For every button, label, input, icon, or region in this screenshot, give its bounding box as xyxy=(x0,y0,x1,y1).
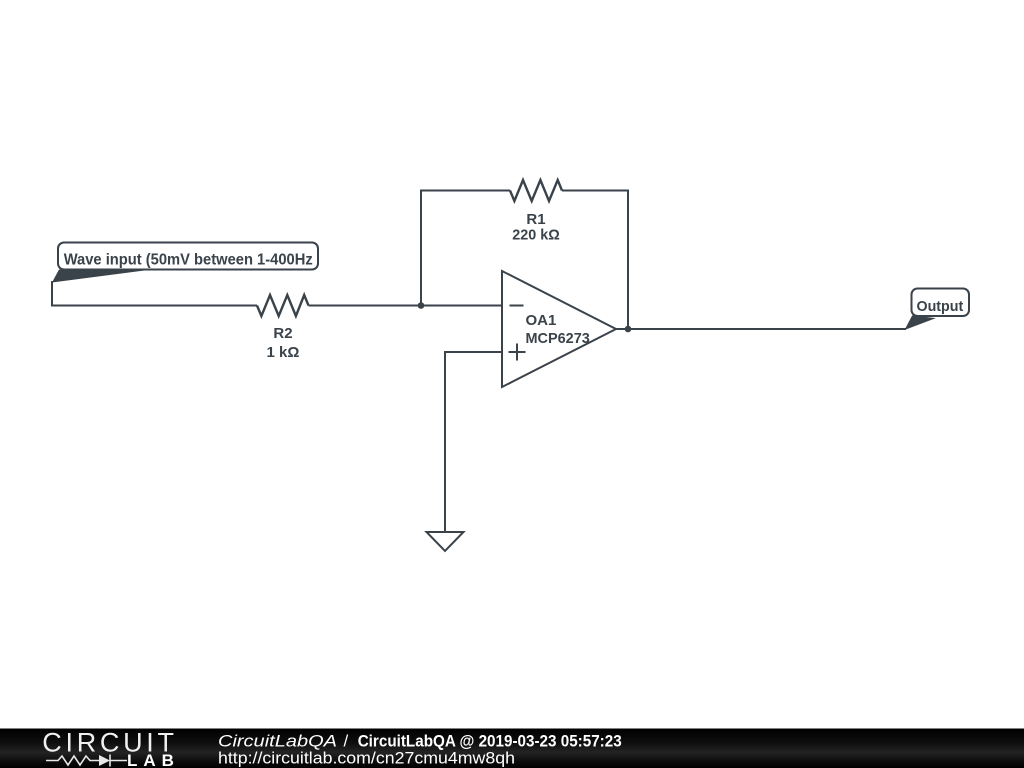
op-amp OA1 xyxy=(502,271,616,387)
svg-text:1 kΩ: 1 kΩ xyxy=(267,344,300,361)
wire: feedback vertical left xyxy=(420,191,422,307)
svg-text:MCP6273: MCP6273 xyxy=(526,330,590,347)
svg-text:R2: R2 xyxy=(273,325,292,342)
svg-text:Wave input (50mV between 1-400: Wave input (50mV between 1-400Hz xyxy=(64,252,313,269)
wire: non-inverting input horizontal xyxy=(444,351,503,353)
wire: feedback vertical right down to output xyxy=(627,190,629,331)
svg-text:220 kΩ: 220 kΩ xyxy=(512,227,560,244)
footer bar xyxy=(0,729,1024,768)
ground xyxy=(427,532,464,551)
svg-text:R1: R1 xyxy=(526,211,545,228)
wire: output net xyxy=(616,328,906,330)
wire: input net right segment to op-amp xyxy=(309,305,504,307)
resistor R2 xyxy=(257,295,309,361)
flag: Output label box xyxy=(912,289,970,317)
CircuitLab logo resistor-diode glyph xyxy=(46,755,127,767)
wire: feedback top right segment xyxy=(562,190,629,192)
node: junction at op-amp output xyxy=(625,326,632,333)
flag: Wave input label box xyxy=(58,243,318,270)
svg-text:Output: Output xyxy=(917,298,964,315)
wire: input flag drop xyxy=(51,281,53,307)
wire: feedback top left segment xyxy=(420,190,510,192)
svg-text:LAB: LAB xyxy=(127,751,180,768)
resistor R1 xyxy=(510,180,562,244)
flag pennant (Wave input tail) xyxy=(52,270,152,283)
wire: input net left segment xyxy=(51,305,257,307)
wire: ground drop vertical xyxy=(444,351,446,532)
svg-text:OA1: OA1 xyxy=(526,312,557,329)
node: junction at inverting input xyxy=(418,302,425,309)
svg-text:http://circuitlab.com/cn27cmu4: http://circuitlab.com/cn27cmu4mw8qh xyxy=(218,749,515,768)
flag pennant (Output tail) xyxy=(905,315,936,330)
